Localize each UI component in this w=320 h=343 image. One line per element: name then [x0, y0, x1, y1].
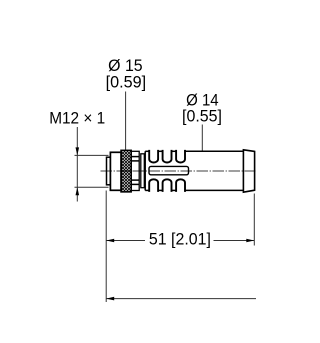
svg-text:M12 × 1: M12 × 1 [49, 109, 105, 128]
svg-text:[0.59]: [0.59] [106, 73, 147, 92]
svg-text:[0.55]: [0.55] [182, 106, 222, 125]
svg-text:51 [2.01]: 51 [2.01] [149, 229, 211, 248]
